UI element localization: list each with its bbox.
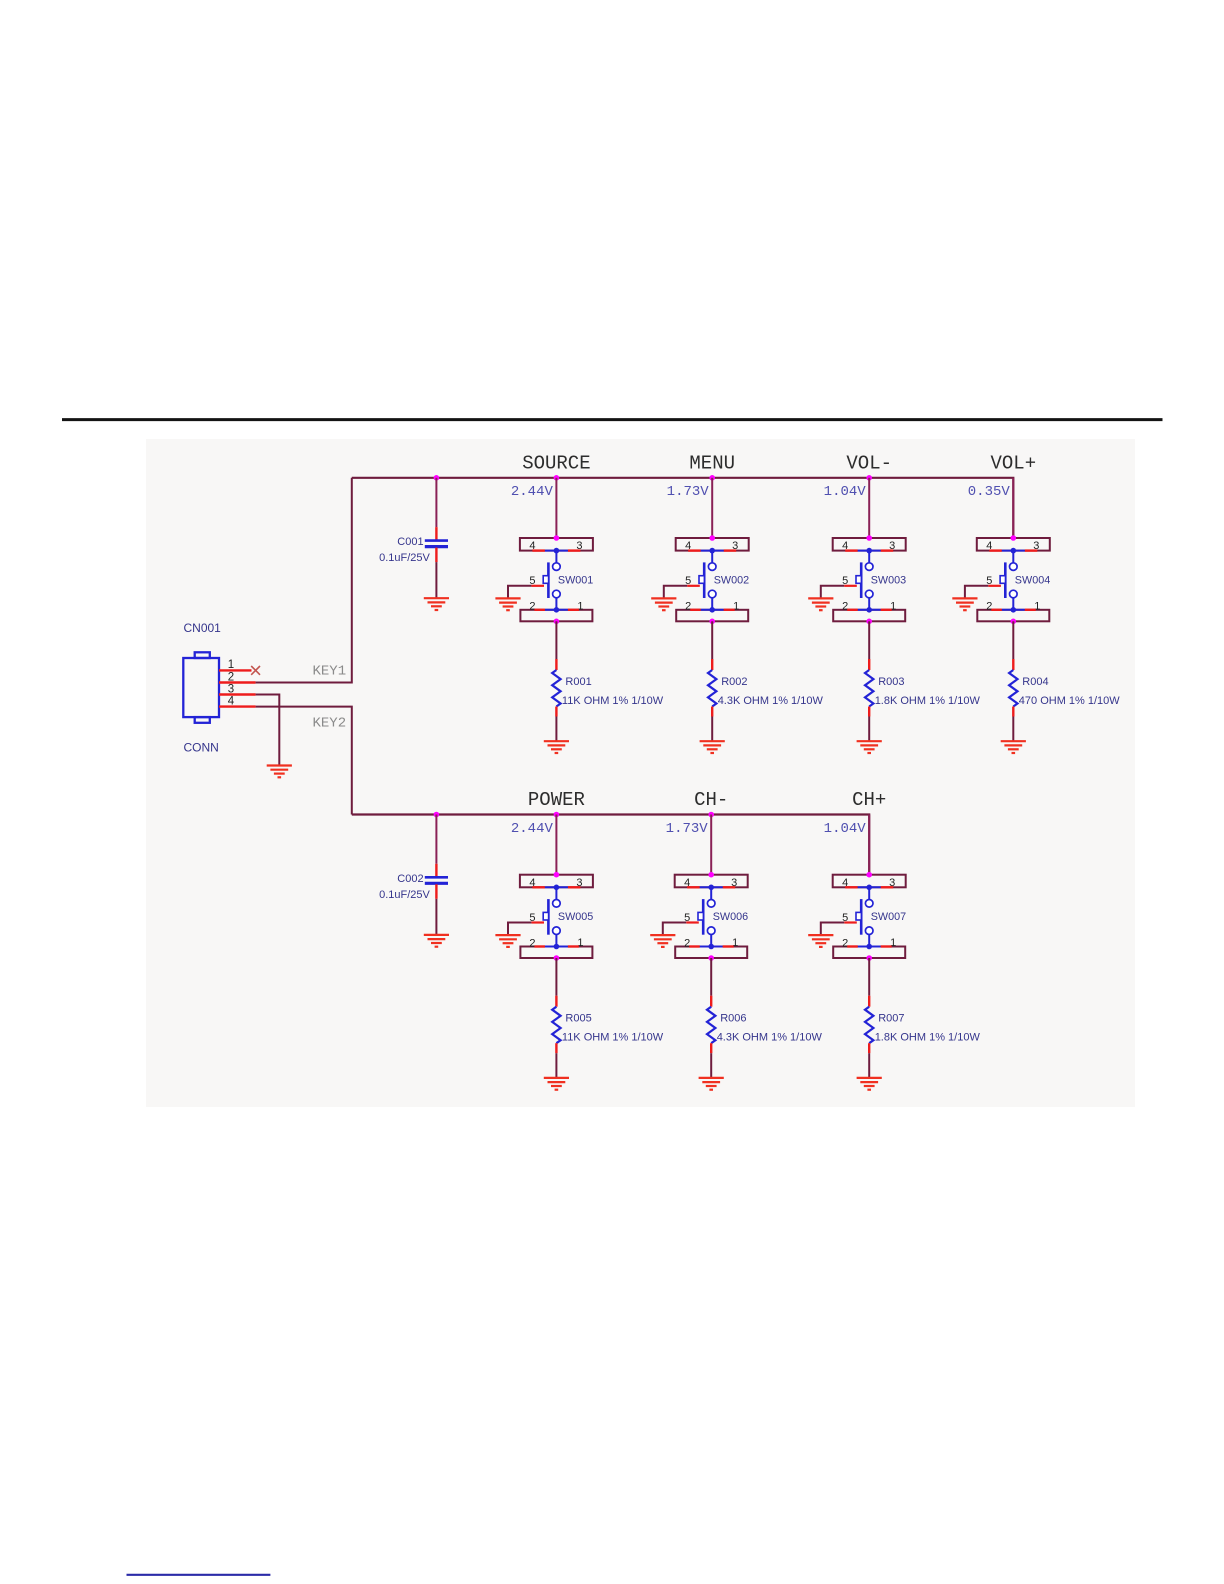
switch SW007 header pins 4/3 [833,875,906,888]
capacitor C001 [425,541,448,547]
resistor R004 top stub [1012,659,1014,670]
svg-text:1.04V: 1.04V [824,821,867,837]
ground (R005) [544,1078,569,1090]
resistor R007 bottom stub [868,1043,870,1053]
resistor R001 top stub [555,659,557,670]
svg-text:SW006: SW006 [713,911,748,923]
pin 5 stub [686,921,699,923]
wire SW004 pin 5 to ground [965,586,988,599]
ground (R007) [857,1078,882,1090]
svg-text:R004: R004 [1022,676,1048,688]
pin 1 stub [568,945,579,947]
wire SW006 to R006 [710,958,712,996]
svg-text:MENU: MENU [689,453,735,475]
svg-text:SW005: SW005 [558,911,593,923]
pin 5 stub [844,921,857,923]
pin 2 stub [847,945,858,947]
wire R007 to ground [868,1053,870,1078]
wire KEY2 bus [352,815,869,875]
ground (R004) [1001,741,1026,753]
ground (R001) [544,741,569,753]
switch SW003 header pins 4/3 [833,538,906,551]
switch SW006 header pins 4/3 [675,875,748,888]
wire CN001 pin 4 to KEY2 bus [256,707,352,815]
svg-text:KEY2: KEY2 [313,715,347,731]
svg-text:470 OHM 1% 1/10W: 470 OHM 1% 1/10W [1019,695,1120,707]
resistor R004 [1009,670,1017,706]
ground (R002) [700,741,725,753]
junction at SW001 header bottom [554,619,560,625]
pin 3 stub [881,549,894,551]
wire SW003 pin 5 to ground [821,586,844,599]
svg-text:R005: R005 [565,1013,591,1025]
resistor R001 [552,670,560,706]
wire SW007 pin 5 to ground [821,923,844,936]
ground (CN001 pin 3) [267,766,292,778]
wire KEY1 bus [352,478,1014,538]
svg-text:1: 1 [228,659,234,671]
svg-text:SW002: SW002 [714,575,749,587]
resistor R005 [552,1007,560,1043]
wire C001 to KEY bus [435,478,437,527]
resistor R005 bottom stub [555,1043,557,1053]
schematic sheet background [146,439,1135,1107]
junction at SW003 header top [866,535,872,541]
capacitor C002 [425,877,448,883]
pin 4 stub [532,549,545,551]
pin 1 stub [723,945,734,947]
resistor R002 bottom stub [711,707,713,717]
CN001 pin 1 stub [219,669,252,671]
wire R001 to ground [555,717,557,742]
pin 1 stub [881,945,892,947]
switch SW005 [543,885,568,947]
wire R006 to ground [710,1053,712,1078]
top horizontal rule [62,418,1163,421]
svg-text:0.1uF/25V: 0.1uF/25V [379,552,430,564]
ground (SW002 pin 5) [651,598,676,610]
junction at SW005 header top [554,872,560,878]
ground (SW007 pin 5) [808,935,833,947]
footer link underline [127,1574,271,1576]
svg-text:R006: R006 [720,1013,746,1025]
svg-text:C001: C001 [397,536,423,548]
switch SW002 header pins 2/1 [676,610,748,622]
pin 3 stub [1025,549,1038,551]
capacitor C001 pin 1 stub [435,527,437,540]
svg-text:SW004: SW004 [1015,575,1050,587]
CN001 pin 3 stub [219,693,256,695]
CN001 pin 4 stub [219,705,256,707]
ground (R006) [699,1078,724,1090]
junction on KEY2 bus [434,812,440,818]
wire SW001 pin 5 to ground [508,586,531,599]
junction at SW002 header top [709,535,715,541]
pin 3 stub [881,886,894,888]
switch SW004 [1000,548,1025,610]
svg-text:2: 2 [228,671,234,683]
no-connect X on pin 1 [251,666,260,675]
ground (SW005 pin 5) [495,935,520,947]
wire SW003 to R003 [868,621,870,659]
switch SW007 header pins 2/1 [833,947,905,959]
svg-text:0.35V: 0.35V [968,484,1011,500]
svg-text:1.73V: 1.73V [667,484,710,500]
wire C002 to KEY bus [435,815,437,864]
CN001 pin 2 stub [219,681,256,683]
resistor R002 top stub [711,659,713,670]
ground (C002) [424,935,449,947]
svg-text:1.8K OHM 1% 1/10W: 1.8K OHM 1% 1/10W [875,1032,981,1044]
svg-text:VOL+: VOL+ [990,453,1036,475]
junction at SW004 header top [1011,535,1017,541]
switch SW004 header pins 4/3 [977,538,1050,551]
pin 2 stub [689,945,700,947]
switch SW006 header pins 2/1 [675,947,747,959]
ground (SW001 pin 5) [495,598,520,610]
wire KEY bus to SW007 pin header [868,815,870,875]
wire C002 to ground [435,899,437,935]
svg-text:4: 4 [228,695,235,707]
junction on KEY2 bus [708,812,714,818]
svg-text:CN001: CN001 [184,621,222,635]
switch SW003 header pins 2/1 [833,610,905,622]
svg-text:2.44V: 2.44V [511,821,554,837]
resistor R006 [707,1007,715,1043]
wire KEY bus to SW006 pin header [710,815,712,875]
pin 3 stub [568,886,581,888]
pin 5 stub [687,585,700,587]
junction at SW001 header top [554,535,560,541]
pin 2 stub [847,609,858,611]
switch SW001 header pins 2/1 [520,610,592,622]
junction at SW004 header bottom [1011,619,1017,625]
switch SW001 header pins 4/3 [520,538,593,551]
ground (SW004 pin 5) [952,598,977,610]
wire SW004 to R004 [1012,621,1014,659]
pin 5 stub [844,585,857,587]
pin 3 stub [724,549,737,551]
svg-text:KEY1: KEY1 [313,663,347,679]
svg-text:4.3K OHM 1% 1/10W: 4.3K OHM 1% 1/10W [718,695,824,707]
resistor R007 top stub [868,996,870,1007]
svg-text:CH+: CH+ [852,789,886,811]
svg-text:2.44V: 2.44V [511,484,554,500]
switch SW005 header pins 4/3 [520,875,593,888]
junction at SW003 header bottom [866,619,872,625]
svg-text:SW007: SW007 [871,911,906,923]
wire SW006 pin 5 to ground [663,923,686,936]
wire R005 to ground [555,1053,557,1078]
wire R003 to ground [868,717,870,742]
wire CN001 pin 3 to ground [256,695,280,766]
svg-text:1.73V: 1.73V [666,821,709,837]
pin 4 stub [688,549,701,551]
pin 4 stub [845,549,858,551]
wire KEY bus to SW002 pin header [711,478,713,538]
resistor R006 top stub [710,996,712,1007]
wire SW005 to R005 [555,958,557,996]
pin 3 stub [723,886,736,888]
pin 1 stub [568,609,579,611]
svg-text:3: 3 [228,683,234,695]
svg-text:R002: R002 [721,676,747,688]
pin 2 stub [534,945,545,947]
pin 2 stub [991,609,1002,611]
junction at SW007 header bottom [866,955,872,961]
switch SW005 header pins 2/1 [520,947,592,959]
pin 2 stub [690,609,701,611]
svg-text:R001: R001 [565,676,591,688]
pin 5 stub [988,585,1001,587]
switch SW004 header pins 2/1 [977,610,1049,622]
switch SW006 [698,885,723,947]
resistor R005 top stub [555,996,557,1007]
ground (SW006 pin 5) [650,935,675,947]
pin 4 stub [687,886,700,888]
wire KEY bus to SW004 pin header [1012,478,1014,538]
svg-text:POWER: POWER [528,789,585,811]
junction on KEY1 bus [866,475,872,481]
resistor R007 [865,1007,873,1043]
capacitor C002 pin 2 stub [435,884,437,899]
pin 4 stub [845,886,858,888]
resistor R003 [865,670,873,706]
svg-text:4.3K OHM 1% 1/10W: 4.3K OHM 1% 1/10W [717,1032,823,1044]
ground (R003) [857,741,882,753]
pin 2 stub [534,609,545,611]
svg-text:C002: C002 [397,873,423,885]
junction on KEY1 bus [434,475,440,481]
switch SW001 [543,548,568,610]
junction at SW005 header bottom [554,955,560,961]
ground (C001) [424,598,449,610]
ground (SW003 pin 5) [808,598,833,610]
resistor R002 [708,670,716,706]
svg-text:SW001: SW001 [558,575,593,587]
svg-text:11K OHM 1% 1/10W: 11K OHM 1% 1/10W [562,695,664,707]
wire C001 to ground [435,562,437,598]
wire KEY bus to SW005 pin header [555,815,557,875]
switch SW002 [699,548,724,610]
pin 1 stub [724,609,735,611]
svg-text:11K OHM 1% 1/10W: 11K OHM 1% 1/10W [562,1032,664,1044]
wire R004 to ground [1012,717,1014,742]
svg-text:VOL-: VOL- [846,453,892,475]
resistor R004 bottom stub [1012,707,1014,717]
resistor R003 bottom stub [868,707,870,717]
junction at SW006 header top [708,872,714,878]
svg-text:R003: R003 [878,676,904,688]
pin 1 stub [881,609,892,611]
wire SW001 to R001 [555,621,557,659]
capacitor C001 pin 2 stub [435,548,437,563]
wire CN001 pin 2 to KEY1 bus [256,478,352,683]
wire SW005 pin 5 to ground [508,923,531,936]
wire SW007 to R007 [868,958,870,996]
svg-text:CONN: CONN [184,740,219,754]
svg-text:SOURCE: SOURCE [522,453,590,475]
svg-text:0.1uF/25V: 0.1uF/25V [379,889,430,901]
svg-text:1.04V: 1.04V [824,484,867,500]
pin 3 stub [568,549,581,551]
junction on KEY1 bus [554,475,560,481]
connector CN001 [183,652,219,723]
junction on KEY2 bus [554,812,560,818]
resistor R006 bottom stub [710,1043,712,1053]
capacitor C002 pin 1 stub [435,864,437,877]
wire SW002 pin 5 to ground [664,586,687,599]
resistor R003 top stub [868,659,870,670]
wire SW002 to R002 [711,621,713,659]
wire KEY bus to SW001 pin header [555,478,557,538]
wire R002 to ground [711,717,713,742]
pin 1 stub [1025,609,1036,611]
pin 4 stub [989,549,1002,551]
switch SW003 [856,548,881,610]
switch SW007 [856,885,881,947]
wire KEY bus to SW003 pin header [868,478,870,538]
junction at SW007 header top [866,872,872,878]
junction on KEY1 bus [709,475,715,481]
pin 5 stub [531,585,544,587]
junction at SW002 header bottom [709,619,715,625]
switch SW002 header pins 4/3 [676,538,749,551]
svg-text:SW003: SW003 [871,575,906,587]
resistor R001 bottom stub [555,707,557,717]
svg-text:R007: R007 [878,1013,904,1025]
svg-text:CH-: CH- [694,789,728,811]
pin 5 stub [531,921,544,923]
svg-text:1.8K OHM 1% 1/10W: 1.8K OHM 1% 1/10W [875,695,981,707]
pin 4 stub [532,886,545,888]
junction at SW006 header bottom [708,955,714,961]
